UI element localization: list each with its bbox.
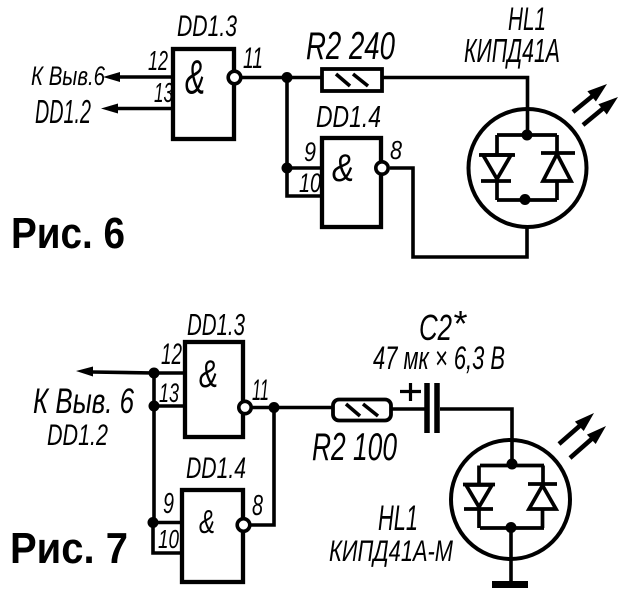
arrow to К Выв. 6 (fig7) (76, 367, 154, 377)
resistor R2 240 (fig6) (322, 69, 382, 91)
wire junction down to output 8 (fig7) (250, 408, 274, 526)
svg-text:DD1.3: DD1.3 (187, 307, 245, 342)
wire input 12 (fig7) (154, 371, 187, 375)
wire input 9 (fig7) (153, 521, 184, 525)
wire resistor to LED anode (fig6) (382, 78, 528, 138)
diode right, anode down (fig6) (541, 135, 575, 200)
svg-text:R2 100: R2 100 (312, 426, 397, 469)
wire input 13 (fig7) (154, 404, 187, 408)
svg-text:КИПД41А: КИПД41А (464, 32, 560, 69)
wire loop to input 10 (fig7) (153, 523, 184, 554)
svg-text:Рис. 7: Рис. 7 (10, 525, 128, 573)
svg-text:Рис. 6: Рис. 6 (11, 210, 125, 258)
inversion circle output 11 (fig7) (239, 401, 251, 413)
svg-text:R2 240: R2 240 (306, 25, 395, 68)
wire LED cathode to ground (fig7) (509, 528, 513, 583)
light ray arrow 1 (fig7) (559, 413, 594, 444)
svg-text:8: 8 (252, 490, 263, 522)
wire capacitor to LED (fig7) (440, 409, 512, 466)
node top junction (fig7 LED) (507, 459, 518, 470)
svg-text:КИПД41А-М: КИПД41А-М (329, 535, 453, 568)
gate DD1.3 (fig6) (173, 49, 234, 139)
node junction pin9 (fig7) (148, 517, 159, 528)
node top junction (fig6 LED) (522, 130, 533, 141)
light ray arrow 2 (fig6) (583, 97, 618, 125)
diode right, anode down (fig7) (528, 466, 557, 529)
node junction pin12 (fig7) (149, 368, 160, 379)
wire resistor to capacitor (fig7) (391, 407, 425, 411)
svg-text:*: * (452, 303, 467, 344)
svg-text:12: 12 (161, 338, 182, 371)
wire input 9 (fig6) (287, 166, 324, 170)
wire junction down to DD1.4 inputs (fig6) (285, 78, 289, 171)
ground symbol (492, 581, 528, 588)
svg-text:К Выв. 6: К Выв. 6 (33, 382, 134, 421)
svg-text:DD1.2: DD1.2 (47, 419, 108, 452)
gate DD1.3 (fig7) (185, 342, 243, 437)
svg-text:&: & (185, 52, 205, 105)
wire output 8 to LED cathode (fig6) (390, 168, 527, 257)
wire input 12 (fig6) (116, 75, 174, 79)
inner top rail (fig6) (497, 133, 557, 137)
svg-text:DD1.4: DD1.4 (186, 452, 246, 485)
wire input 13 (fig6) (114, 107, 174, 111)
inversion circle output 8 (fig7) (237, 519, 250, 532)
capacitor C2 plates (427, 383, 437, 433)
node bottom junction (fig6 LED) (520, 194, 531, 205)
light ray arrow 2 (fig7) (570, 426, 606, 458)
svg-text:DD1.3: DD1.3 (177, 10, 237, 43)
svg-text:47 мк × 6,3 В: 47 мк × 6,3 В (373, 340, 505, 376)
node junction pin13 (fig7) (149, 401, 160, 412)
wire output 11 to resistor (fig7) (251, 406, 334, 410)
diode left, anode up (fig7) (463, 466, 495, 529)
svg-text:8: 8 (390, 135, 402, 165)
svg-text:13: 13 (154, 77, 173, 108)
svg-text:&: & (332, 147, 354, 190)
inner bottom rail (fig7) (480, 526, 544, 530)
resistor R2 100 (fig7) (333, 400, 391, 421)
polarity plus sign (C2) (400, 383, 421, 401)
inversion circle output 11 (fig6) (228, 71, 241, 84)
node junction at R2 left (fig6) (282, 72, 293, 83)
node junction at input 9 (fig6) (282, 163, 293, 174)
wire bus down the left (fig7) (152, 373, 156, 523)
svg-text:11: 11 (243, 42, 263, 75)
svg-text:DD1.2: DD1.2 (35, 93, 91, 130)
svg-text:HL1: HL1 (378, 499, 418, 538)
svg-text:11: 11 (252, 374, 269, 407)
svg-text:&: & (199, 353, 218, 396)
svg-text:10: 10 (299, 168, 321, 198)
svg-text:9: 9 (163, 488, 174, 520)
node bottom junction (fig7 LED) (506, 522, 517, 533)
arrow to DD1.2 (fig6 pin13) (101, 104, 118, 114)
svg-text:DD1.4: DD1.4 (316, 99, 381, 134)
LED HL1 body circle (fig6) (469, 109, 587, 227)
svg-text:К Выв.6: К Выв.6 (31, 61, 106, 91)
svg-text:&: & (199, 503, 215, 540)
gate DD1.4 (fig7) (182, 490, 243, 582)
diode left, anode up (fig6) (479, 135, 515, 200)
svg-text:12: 12 (148, 45, 168, 76)
inner bottom rail (fig6) (497, 198, 557, 202)
svg-text:9: 9 (304, 137, 316, 167)
inner top rail (fig7) (480, 464, 544, 468)
node junction output 11 (fig7) (269, 402, 280, 413)
svg-text:13: 13 (159, 378, 179, 408)
svg-text:10: 10 (158, 524, 179, 554)
wire output 11 to resistor (fig6) (242, 76, 324, 80)
inversion circle output 8 (fig6) (376, 162, 388, 174)
LED HL1 body circle (fig7) (451, 440, 570, 559)
arrow to К Выв.6 (fig6 pin12) (103, 72, 120, 82)
light ray arrow 1 (fig6) (573, 84, 607, 112)
wire loop to input 10 (fig6) (287, 168, 322, 196)
gate DD1.4 (fig6) (322, 138, 381, 227)
